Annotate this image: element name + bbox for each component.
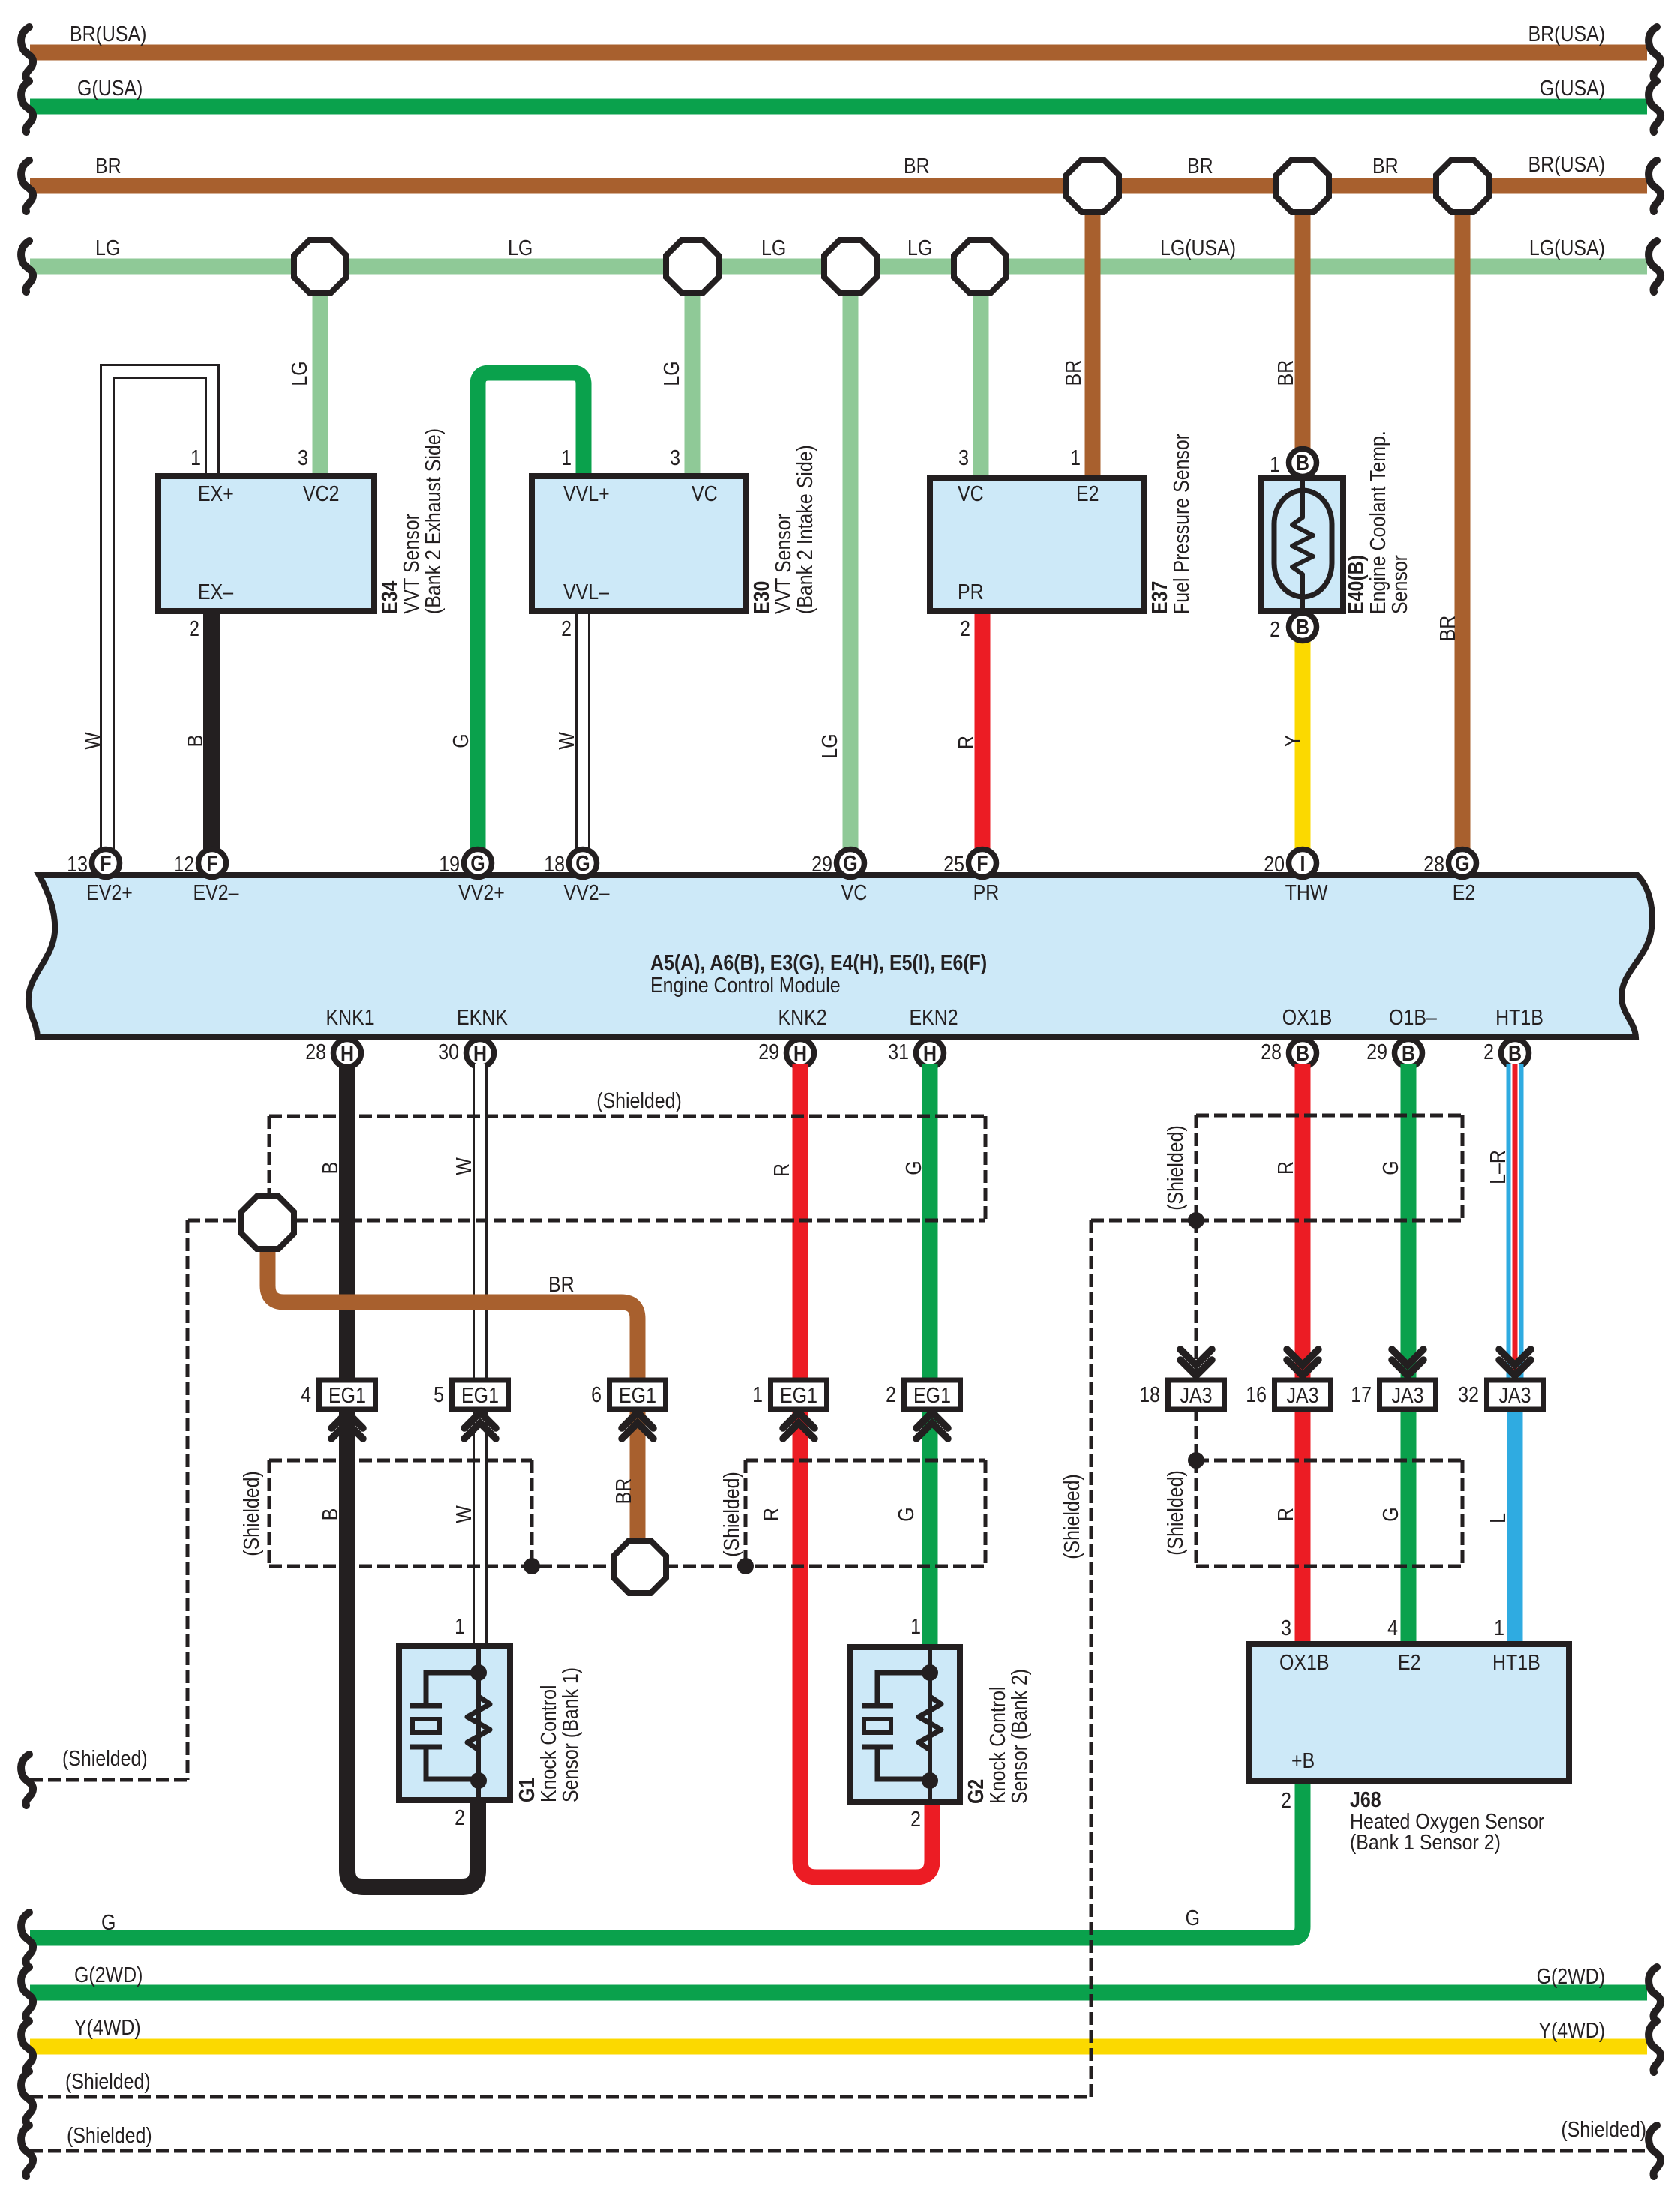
svg-text:E34: E34 xyxy=(377,581,401,614)
svg-text:W: W xyxy=(451,1505,475,1523)
shield JA3-18 to lower box xyxy=(1195,1408,1198,1460)
svg-text:H: H xyxy=(473,1041,487,1065)
wire B ECM KNK1 to G1 pin2 xyxy=(347,1064,478,1887)
svg-text:EX+: EX+ xyxy=(198,481,234,505)
svg-text:1: 1 xyxy=(561,445,571,469)
svg-text:EG1: EG1 xyxy=(461,1383,499,1407)
junction on LG bus 2 xyxy=(666,240,718,292)
shield box R/G/L lower right xyxy=(1196,1459,1462,1462)
svg-text:G1: G1 xyxy=(514,1777,538,1802)
svg-text:6: 6 xyxy=(591,1382,601,1406)
svg-text:G: G xyxy=(894,1507,918,1521)
svg-text:LG: LG xyxy=(287,361,311,385)
svg-text:VC: VC xyxy=(691,481,718,505)
svg-text:EV2+: EV2+ xyxy=(86,880,133,904)
ECM pin 19 VV2+ xyxy=(464,850,492,877)
svg-text:HT1B: HT1B xyxy=(1495,1005,1543,1029)
svg-text:BR: BR xyxy=(904,154,930,178)
svg-text:I: I xyxy=(1300,851,1306,875)
shield box KNK1/EKNK/KNK2/EKN2 top xyxy=(269,1114,985,1118)
svg-text:1: 1 xyxy=(190,445,201,469)
svg-text:PR: PR xyxy=(973,880,1000,904)
svg-text:16: 16 xyxy=(1246,1382,1267,1406)
wire LG to E37 VC xyxy=(973,266,989,479)
wire BR to E37 E2 xyxy=(1085,186,1101,479)
svg-text:Engine Control Module: Engine Control Module xyxy=(650,973,841,997)
svg-text:W: W xyxy=(80,732,104,750)
junction dot shield left xyxy=(523,1558,540,1574)
connector JA3 pin 17 xyxy=(1392,1349,1423,1365)
wire LG to ECM VC pin 29 xyxy=(843,266,859,849)
svg-text:E2: E2 xyxy=(1076,481,1099,505)
shield stub left xyxy=(186,1220,190,1780)
junction on LG bus 4 xyxy=(954,240,1006,292)
svg-text:(Shielded): (Shielded) xyxy=(62,1746,148,1770)
wire bus BR xyxy=(30,178,1647,194)
svg-text:+B: +B xyxy=(1291,1748,1315,1772)
svg-text:E2: E2 xyxy=(1398,1650,1421,1674)
svg-text:2: 2 xyxy=(910,1807,921,1831)
svg-text:G: G xyxy=(1378,1160,1402,1174)
knock control sensor G2 xyxy=(850,1647,960,1801)
svg-text:28: 28 xyxy=(1423,852,1444,876)
pin 1 circle E40 xyxy=(1289,449,1317,477)
svg-text:(Shielded): (Shielded) xyxy=(719,1471,743,1557)
connector EG1 pin 4 xyxy=(319,1380,376,1409)
connector EG1 pin 6 xyxy=(610,1380,666,1409)
fuel pressure sensor E37 xyxy=(930,478,1144,611)
svg-text:A5(A), A6(B), E3(G), E4(H), E5: A5(A), A6(B), E3(G), E4(H), E5(I), E6(F) xyxy=(650,950,987,974)
svg-text:28: 28 xyxy=(1261,1039,1282,1063)
svg-text:B: B xyxy=(1296,451,1309,475)
svg-text:VC: VC xyxy=(958,481,984,505)
wire L-R ECM HT1B to JA3 xyxy=(1507,1064,1524,1380)
svg-text:Y(4WD): Y(4WD) xyxy=(1538,2018,1605,2042)
svg-text:R: R xyxy=(1273,1161,1297,1174)
svg-text:(Shielded): (Shielded) xyxy=(239,1471,263,1556)
wire R E37 PR to ECM PR xyxy=(975,611,991,849)
junction dot shield right lower xyxy=(1188,1452,1204,1468)
svg-text:EG1: EG1 xyxy=(780,1383,817,1407)
VVT sensor E34 xyxy=(158,476,374,611)
ECM pin 30 EKNK xyxy=(466,1039,494,1067)
svg-text:F: F xyxy=(976,851,988,875)
svg-text:G: G xyxy=(1378,1507,1402,1521)
svg-text:VVL–: VVL– xyxy=(563,580,610,604)
svg-text:17: 17 xyxy=(1351,1382,1372,1406)
svg-text:13: 13 xyxy=(67,852,88,876)
wire bus G(2WD) xyxy=(30,1985,1647,2001)
svg-text:4: 4 xyxy=(301,1382,311,1406)
wire BR to E40 pin 1 xyxy=(1295,186,1311,448)
svg-text:(Shielded): (Shielded) xyxy=(1060,1474,1084,1559)
svg-text:1: 1 xyxy=(1270,452,1280,476)
ECM pin 29 O1B– xyxy=(1395,1039,1423,1067)
svg-text:BR: BR xyxy=(611,1478,635,1504)
svg-text:F: F xyxy=(206,851,217,875)
svg-text:JA3: JA3 xyxy=(1499,1383,1531,1407)
connector EG1 pin 2 xyxy=(904,1380,961,1409)
pin 2 circle E40 xyxy=(1289,613,1317,641)
svg-text:(Bank 1 Sensor 2): (Bank 1 Sensor 2) xyxy=(1350,1830,1501,1854)
svg-text:1: 1 xyxy=(752,1382,763,1406)
svg-text:G: G xyxy=(843,851,857,875)
svg-text:E30: E30 xyxy=(749,581,773,614)
svg-text:2: 2 xyxy=(189,616,199,640)
svg-text:1: 1 xyxy=(454,1614,465,1638)
svg-text:5: 5 xyxy=(433,1382,444,1406)
wire BR EG1-6 to shield junction xyxy=(630,1408,646,1542)
svg-text:PR: PR xyxy=(958,580,984,604)
svg-text:19: 19 xyxy=(439,852,460,876)
engine coolant temp sensor E40(B) xyxy=(1261,478,1343,611)
svg-text:29: 29 xyxy=(758,1039,779,1063)
svg-text:1: 1 xyxy=(1494,1615,1504,1639)
wire R ECM OX1B to JA3 xyxy=(1295,1064,1311,1380)
svg-text:H: H xyxy=(793,1041,807,1065)
connector EG1 pin 1 xyxy=(771,1380,827,1409)
svg-text:(Shielded): (Shielded) xyxy=(1163,1470,1187,1555)
shield long vertical xyxy=(1090,1220,1093,2097)
svg-text:LG: LG xyxy=(761,235,786,259)
svg-text:THW: THW xyxy=(1285,880,1328,904)
svg-text:G: G xyxy=(1455,851,1469,875)
svg-text:B: B xyxy=(1296,1041,1309,1065)
svg-text:Sensor (Bank 2): Sensor (Bank 2) xyxy=(1007,1669,1031,1804)
wire R JA3 to J68 OX1B xyxy=(1295,1408,1311,1644)
wire G ECM EKN2 to G2 pin1 xyxy=(922,1064,938,1647)
svg-text:LG(USA): LG(USA) xyxy=(1529,235,1605,259)
svg-text:3: 3 xyxy=(298,445,308,469)
svg-text:LG(USA): LG(USA) xyxy=(1160,235,1236,259)
svg-text:LG: LG xyxy=(817,733,841,758)
svg-text:VV2–: VV2– xyxy=(564,880,610,904)
svg-text:30: 30 xyxy=(438,1039,459,1063)
wire G J68 +B to G bus xyxy=(30,1781,1303,1938)
svg-text:VV2+: VV2+ xyxy=(458,880,505,904)
svg-text:Knock Control: Knock Control xyxy=(536,1684,560,1802)
svg-text:E40(B): E40(B) xyxy=(1344,555,1368,614)
wire bus G(USA) xyxy=(30,99,1647,115)
svg-text:2: 2 xyxy=(1483,1039,1494,1063)
svg-text:EX–: EX– xyxy=(198,580,234,604)
wire BR to ECM E2 pin 28 xyxy=(1455,186,1471,849)
svg-text:HT1B: HT1B xyxy=(1492,1650,1540,1674)
ECM pin 28 OX1B xyxy=(1289,1039,1317,1067)
junction on LG bus 1 xyxy=(294,240,346,292)
ECM pin 29 VC xyxy=(837,850,865,877)
svg-text:B: B xyxy=(318,1162,342,1174)
svg-text:B: B xyxy=(1508,1041,1522,1065)
connector EG1 pin 5 xyxy=(452,1380,508,1409)
svg-text:EKNK: EKNK xyxy=(457,1005,508,1029)
wire G ECM O1B- to JA3 xyxy=(1401,1064,1417,1380)
ECM pin 20 THW xyxy=(1289,850,1317,877)
svg-text:G: G xyxy=(575,851,589,875)
svg-text:3: 3 xyxy=(1281,1615,1291,1639)
svg-text:R: R xyxy=(769,1163,793,1177)
junction dot shield right xyxy=(737,1558,754,1574)
svg-text:3: 3 xyxy=(670,445,680,469)
svg-text:W: W xyxy=(554,732,578,750)
svg-text:Engine Coolant Temp.: Engine Coolant Temp. xyxy=(1366,430,1390,614)
wire W E34 pin1 to ECM EV2+ xyxy=(107,371,212,849)
shield box R/G lower xyxy=(745,1459,985,1462)
svg-text:(Shielded): (Shielded) xyxy=(1561,2117,1646,2141)
svg-text:G(2WD): G(2WD) xyxy=(74,1963,142,1987)
svg-text:KNK1: KNK1 xyxy=(325,1005,374,1029)
svg-text:BR: BR xyxy=(1435,616,1459,642)
svg-text:BR(USA): BR(USA) xyxy=(1528,22,1605,46)
svg-text:2: 2 xyxy=(960,616,970,640)
connector JA3 pin 32 xyxy=(1499,1349,1531,1365)
svg-text:2: 2 xyxy=(1281,1788,1291,1812)
svg-text:EV2–: EV2– xyxy=(193,880,240,904)
svg-text:G2: G2 xyxy=(964,1779,988,1804)
svg-text:3: 3 xyxy=(958,445,969,469)
svg-text:LG: LG xyxy=(508,235,532,259)
svg-text:Sensor: Sensor xyxy=(1387,555,1411,614)
svg-text:R: R xyxy=(1273,1507,1297,1521)
wire BR shield junction to EG1-6 xyxy=(268,1247,637,1380)
svg-text:F: F xyxy=(100,851,111,875)
svg-text:G(USA): G(USA) xyxy=(1540,76,1605,100)
svg-text:VC: VC xyxy=(841,880,868,904)
svg-text:LG: LG xyxy=(659,361,683,385)
svg-text:L–R: L–R xyxy=(1486,1150,1510,1184)
engine control module ECM xyxy=(28,875,1652,1037)
svg-text:BR: BR xyxy=(1187,154,1213,178)
svg-text:B: B xyxy=(1402,1041,1415,1065)
svg-text:BR: BR xyxy=(548,1272,574,1296)
wire W E30 pin2 to ECM VV2- xyxy=(575,611,590,849)
svg-text:JA3: JA3 xyxy=(1180,1383,1213,1407)
svg-text:B: B xyxy=(183,735,207,748)
svg-text:4: 4 xyxy=(1387,1615,1398,1639)
svg-text:OX1B: OX1B xyxy=(1282,1005,1333,1029)
wire G JA3 to J68 E2 xyxy=(1401,1408,1417,1644)
wire bus BR(USA) top xyxy=(30,45,1647,61)
wire L JA3 to J68 HT1B xyxy=(1507,1408,1523,1644)
svg-text:2: 2 xyxy=(561,616,571,640)
svg-text:LG: LG xyxy=(907,235,932,259)
junction on LG bus 3 xyxy=(824,240,877,292)
svg-text:(Shielded): (Shielded) xyxy=(596,1088,682,1112)
wire LG to E30 VC xyxy=(685,266,700,478)
svg-text:G: G xyxy=(101,1910,115,1934)
svg-text:OX1B: OX1B xyxy=(1279,1650,1330,1674)
svg-text:32: 32 xyxy=(1458,1382,1479,1406)
svg-text:Y: Y xyxy=(1280,735,1304,748)
junction on BR bus 2 xyxy=(1276,160,1329,212)
svg-text:EG1: EG1 xyxy=(328,1383,366,1407)
wire bus Y(4WD) xyxy=(30,2039,1647,2055)
svg-text:EG1: EG1 xyxy=(619,1383,656,1407)
svg-text:O1B–: O1B– xyxy=(1389,1005,1438,1029)
svg-text:R: R xyxy=(759,1507,783,1521)
svg-text:1: 1 xyxy=(1070,445,1081,469)
svg-text:L: L xyxy=(1486,1513,1510,1523)
svg-text:EKN2: EKN2 xyxy=(909,1005,958,1029)
svg-text:25: 25 xyxy=(943,852,964,876)
svg-text:KNK2: KNK2 xyxy=(778,1005,826,1029)
svg-text:2: 2 xyxy=(1270,617,1280,641)
svg-text:G: G xyxy=(448,733,472,748)
shield box R/G/L-R upper right xyxy=(1196,1114,1462,1117)
svg-text:1: 1 xyxy=(910,1614,921,1638)
ECM pin 31 EKN2 xyxy=(916,1039,944,1067)
svg-text:(Shielded): (Shielded) xyxy=(1163,1125,1187,1210)
connector JA3 pin 16 xyxy=(1287,1349,1318,1365)
svg-text:B: B xyxy=(1296,615,1309,639)
junction dot shield right upper xyxy=(1188,1212,1204,1228)
svg-text:BR(USA): BR(USA) xyxy=(70,22,146,46)
svg-text:G(USA): G(USA) xyxy=(77,76,142,100)
svg-text:Sensor (Bank 1): Sensor (Bank 1) xyxy=(558,1667,582,1802)
svg-text:28: 28 xyxy=(305,1039,326,1063)
svg-text:JA3: JA3 xyxy=(1392,1383,1424,1407)
heated oxygen sensor J68 xyxy=(1249,1644,1569,1781)
svg-text:20: 20 xyxy=(1264,852,1285,876)
svg-text:(Shielded): (Shielded) xyxy=(67,2123,152,2147)
svg-text:G(2WD): G(2WD) xyxy=(1537,1964,1605,1988)
ECM pin 2 HT1B xyxy=(1501,1039,1529,1067)
ECM pin 13 EV2+ xyxy=(92,850,120,877)
svg-text:2: 2 xyxy=(454,1805,465,1829)
svg-text:BR: BR xyxy=(1372,154,1399,178)
svg-text:(Shielded): (Shielded) xyxy=(65,2069,151,2093)
svg-text:BR: BR xyxy=(1061,360,1085,386)
wire R ECM KNK2 to G2 pin2 xyxy=(800,1064,932,1877)
ECM pin 28 E2 xyxy=(1449,850,1477,877)
junction on BR bus 1 xyxy=(1066,160,1119,212)
svg-text:VVT Sensor: VVT Sensor xyxy=(399,514,423,614)
connector JA3 pin 18 xyxy=(1180,1349,1212,1365)
svg-text:(Bank 2 Exhaust Side): (Bank 2 Exhaust Side) xyxy=(421,428,445,614)
svg-text:EG1: EG1 xyxy=(913,1383,951,1407)
svg-text:Fuel Pressure Sensor: Fuel Pressure Sensor xyxy=(1169,433,1193,614)
svg-text:E37: E37 xyxy=(1147,581,1171,614)
svg-text:29: 29 xyxy=(811,852,832,876)
shield box B/W lower xyxy=(269,1459,532,1462)
svg-text:VC2: VC2 xyxy=(303,481,339,505)
svg-text:R: R xyxy=(954,736,978,749)
svg-text:Y(4WD): Y(4WD) xyxy=(74,2015,141,2039)
wire LG to E34 VC2 xyxy=(313,266,328,478)
shield bus line 2 xyxy=(30,2149,1647,2153)
svg-text:VVT Sensor: VVT Sensor xyxy=(771,514,795,614)
junction on BR bus 3 xyxy=(1436,160,1489,212)
wire bus LG xyxy=(30,259,1647,274)
shield wire to JA3-18 xyxy=(1091,1219,1196,1222)
svg-text:G: G xyxy=(901,1160,925,1174)
ECM pin 29 KNK2 xyxy=(787,1039,814,1067)
svg-text:J68: J68 xyxy=(1350,1787,1381,1811)
knock control sensor G1 xyxy=(399,1645,510,1800)
junction octagon shield lower xyxy=(613,1540,666,1593)
svg-text:18: 18 xyxy=(1139,1382,1160,1406)
shield bottom line xyxy=(269,1564,985,1568)
svg-text:E2: E2 xyxy=(1453,880,1476,904)
svg-text:2: 2 xyxy=(886,1382,896,1406)
wire Y E40 pin2 to ECM THW xyxy=(1295,641,1311,849)
svg-text:BR: BR xyxy=(95,154,121,178)
svg-text:(Bank 2 Intake Side): (Bank 2 Intake Side) xyxy=(793,445,817,614)
svg-text:29: 29 xyxy=(1366,1039,1387,1063)
svg-text:LG: LG xyxy=(95,235,120,259)
svg-text:H: H xyxy=(923,1041,937,1065)
svg-text:G: G xyxy=(1186,1906,1200,1930)
shield bus line 1 xyxy=(30,2095,1091,2099)
svg-text:BR: BR xyxy=(1273,360,1297,386)
svg-text:12: 12 xyxy=(173,852,194,876)
VVT sensor E30 xyxy=(532,476,745,611)
svg-text:Knock Control: Knock Control xyxy=(985,1686,1009,1804)
svg-text:BR(USA): BR(USA) xyxy=(1528,152,1605,176)
svg-text:B: B xyxy=(318,1508,342,1521)
ECM pin 18 VV2– xyxy=(569,850,597,877)
junction octagon shield upper xyxy=(241,1196,294,1249)
ECM pin 25 PR xyxy=(969,850,997,877)
svg-text:JA3: JA3 xyxy=(1287,1383,1319,1407)
svg-text:H: H xyxy=(340,1041,354,1065)
ECM pin 12 EV2– xyxy=(199,850,226,877)
wire B E34 pin2 to ECM EV2- xyxy=(203,611,220,849)
wire W ECM EKNK to G1 pin1 xyxy=(472,1064,487,1645)
svg-text:31: 31 xyxy=(888,1039,909,1063)
wire G E30 pin1 to ECM VV2+ xyxy=(478,373,583,849)
svg-text:G: G xyxy=(470,851,484,875)
ECM pin 28 KNK1 xyxy=(334,1039,361,1067)
svg-text:18: 18 xyxy=(544,852,565,876)
svg-text:VVL+: VVL+ xyxy=(563,481,610,505)
svg-text:W: W xyxy=(451,1157,475,1175)
